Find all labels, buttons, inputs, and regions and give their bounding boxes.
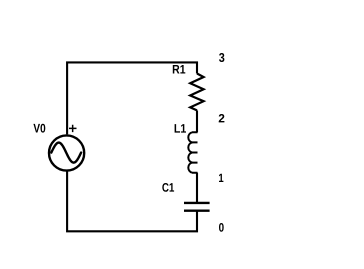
label R1 (173, 65, 186, 74)
label L1 (175, 124, 186, 133)
wire top-left loop (node 3 to source +) (67, 62, 197, 134)
wire node 2 (R1 bottom to L1 top) (196, 110, 198, 132)
capacitor C1 bottom plate (184, 209, 210, 211)
voltage source V0 circle (49, 135, 84, 170)
wire node 0 (C1 bottom to source -) (67, 172, 197, 232)
inductor L1 (188, 132, 197, 172)
wire node 1 (L1 bottom to C1 top) (196, 173, 198, 203)
node label 3 (219, 53, 224, 62)
plus polarity mark (69, 125, 77, 132)
label C1 (162, 183, 174, 192)
node label 1 (219, 174, 223, 182)
label V0 (33, 124, 45, 133)
voltage source sine wave (51, 143, 81, 163)
capacitor C1 top plate (184, 202, 210, 204)
node label 2 (219, 114, 225, 122)
node label 0 (219, 223, 224, 232)
resistor R1 (190, 74, 203, 111)
